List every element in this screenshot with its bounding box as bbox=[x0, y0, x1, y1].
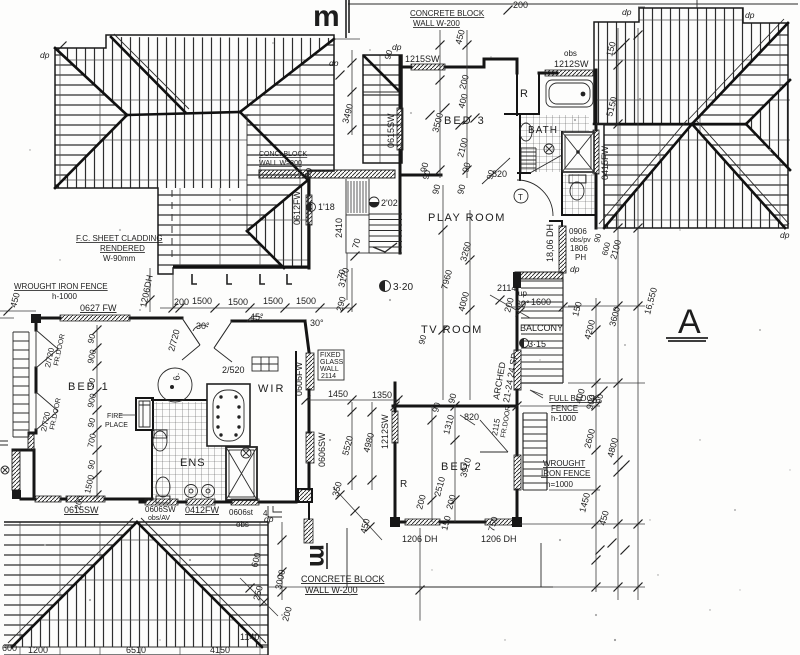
spot level circle 1'18 bbox=[307, 203, 316, 212]
dp labels bbox=[40, 7, 790, 524]
svg-text:RENDERED: RENDERED bbox=[100, 244, 145, 253]
roof mid porch: outline bbox=[363, 55, 402, 163]
svg-text:18,06 DH: 18,06 DH bbox=[545, 224, 555, 262]
ENS floor tiles bbox=[153, 402, 228, 500]
roof top-left: hip from NW corner bbox=[55, 48, 127, 115]
svg-text:2'02: 2'02 bbox=[381, 198, 398, 208]
svg-text:1350: 1350 bbox=[372, 390, 392, 400]
svg-text:dp: dp bbox=[622, 7, 632, 17]
section line top bbox=[346, 0, 349, 38]
roof top-left: hip from step corner (double) bbox=[111, 37, 185, 112]
svg-text:W-90mm: W-90mm bbox=[103, 254, 136, 263]
svg-text:0606SW: 0606SW bbox=[317, 432, 327, 467]
left fence lines bbox=[0, 311, 36, 318]
window 0615SW on BED3 west wall bbox=[397, 108, 403, 150]
svg-text:dp: dp bbox=[40, 50, 50, 60]
bath door swing bbox=[530, 155, 562, 173]
spa deck bbox=[207, 384, 250, 446]
roof top-left: ridge bbox=[127, 112, 240, 115]
balcony deck boards bbox=[521, 279, 563, 383]
roof top-right: north face vertical hatch bbox=[594, 8, 788, 124]
wall BED3 west bbox=[399, 56, 402, 253]
svg-text:1140: 1140 bbox=[240, 632, 259, 642]
svg-text:PH: PH bbox=[575, 253, 586, 262]
svg-text:m: m bbox=[304, 544, 334, 567]
roof mid porch: horizontal hatch bbox=[363, 55, 402, 163]
svg-text:dp: dp bbox=[570, 264, 580, 274]
BED3 dim 3500 bbox=[440, 30, 467, 178]
wall south main (ENS/WIR bottom) bbox=[140, 501, 296, 504]
spot symbol T bbox=[514, 189, 528, 203]
ENS toilet upper bbox=[153, 431, 167, 451]
wall BED3 north bbox=[401, 59, 517, 73]
roof top-left: hip from SW corner bbox=[55, 115, 127, 188]
svg-text:dp: dp bbox=[745, 10, 755, 20]
roof bottom-left: base horizontal hatch bbox=[4, 522, 268, 655]
roof top-left: west hip triangle horizontal hatch bbox=[55, 48, 127, 188]
window 0615SW BED1 south bbox=[35, 496, 61, 502]
courtyard stairs bbox=[369, 214, 402, 253]
wall TV east with balcony opening bbox=[516, 288, 519, 406]
window 1215SW on BED3 north wall bbox=[411, 64, 445, 70]
roof top-left: valley to courtyard bbox=[240, 112, 308, 180]
roof top-left: east face horizontal hatch bbox=[240, 38, 334, 180]
svg-text:30°: 30° bbox=[516, 299, 530, 309]
BED2 corner blocks bbox=[390, 517, 400, 527]
svg-text:6510: 6510 bbox=[126, 645, 146, 655]
svg-text:CONCRETE BLOCK: CONCRETE BLOCK bbox=[301, 574, 385, 584]
wall BED2 north bbox=[393, 405, 517, 408]
svg-text:1215SW: 1215SW bbox=[405, 54, 440, 64]
spot level circle 2'02 bbox=[369, 197, 379, 207]
right chain labels bbox=[340, 28, 659, 526]
roof top-right: outline bbox=[594, 8, 788, 228]
wall BED1 south bbox=[21, 498, 152, 501]
window 0612FW courtyard wall bbox=[306, 195, 312, 225]
wall ENS west (BED1 east) bbox=[151, 398, 153, 499]
roof mid porch: hip bbox=[364, 56, 400, 92]
middle dims 5520/4980 bbox=[306, 400, 400, 490]
svg-text:TV ROOM: TV ROOM bbox=[421, 324, 483, 336]
svg-text:0615SW: 0615SW bbox=[386, 113, 396, 148]
svg-text:1806: 1806 bbox=[570, 244, 588, 253]
wall x309 lower to section mark bbox=[308, 502, 310, 519]
wall playroom north (BED3 south) bbox=[400, 174, 441, 177]
svg-text:CONC. BLOCK: CONC. BLOCK bbox=[259, 151, 308, 158]
svg-text:dp: dp bbox=[264, 514, 274, 524]
wall BED1 west with french doors bbox=[13, 318, 36, 497]
BED2 dims bbox=[432, 406, 455, 522]
french door 2/720 upper bbox=[36, 330, 58, 368]
wall BED2 west bbox=[394, 383, 397, 524]
svg-text:820: 820 bbox=[464, 412, 479, 422]
svg-text:1500: 1500 bbox=[296, 296, 316, 306]
stair east of BED2 bbox=[523, 413, 547, 490]
svg-text:WROUGHT IRON FENCE: WROUGHT IRON FENCE bbox=[14, 282, 108, 291]
diagonal chain to terrace bbox=[333, 487, 382, 540]
svg-text:obs: obs bbox=[236, 520, 249, 529]
roof bottom-left: hip left (double) bbox=[12, 522, 137, 647]
roof mid porch: eave line bbox=[363, 91, 400, 93]
corner block south-east bbox=[298, 489, 312, 502]
TL roof right dim line bbox=[334, 39, 360, 135]
right dimension chain x618 bbox=[617, 28, 619, 600]
wall WIR north bbox=[232, 321, 309, 352]
window 0627FW BED1 north bbox=[60, 315, 130, 321]
roof bottom-left: centre gable vertical hatch bbox=[12, 522, 262, 647]
svg-text:dp: dp bbox=[392, 42, 402, 52]
courtyard north wall hatched (conc block) bbox=[259, 170, 395, 178]
svg-text:WROUGHT: WROUGHT bbox=[543, 459, 585, 468]
roof top-right: small gable hips bbox=[746, 80, 790, 124]
svg-text:F.C. SHEET CLADDING: F.C. SHEET CLADDING bbox=[76, 234, 163, 243]
svg-text:ENS: ENS bbox=[180, 457, 206, 469]
roof top-right: hip to SW corner (double ladder) bbox=[604, 124, 692, 228]
roof top-left: north band face vertical hatch bbox=[55, 35, 185, 115]
bathtub top bbox=[546, 80, 593, 107]
extension lines right bbox=[520, 7, 645, 587]
svg-text:BALCONY: BALCONY bbox=[520, 323, 563, 333]
svg-text:dp: dp bbox=[329, 58, 339, 68]
roof top-left: dashed gutter line bbox=[171, 190, 173, 262]
terrace outline below BED2 bbox=[347, 528, 553, 587]
courtyard west wall x309 upper bbox=[308, 178, 311, 268]
svg-text:0627 FW: 0627 FW bbox=[80, 303, 117, 313]
fence ladder left bbox=[13, 332, 29, 437]
fireplace bbox=[136, 398, 153, 430]
svg-text:BED 3: BED 3 bbox=[444, 115, 486, 127]
WIR east outer window bands bbox=[306, 353, 314, 390]
svg-text:1600: 1600 bbox=[531, 297, 551, 307]
roof bottom-left: eave line bbox=[4, 646, 268, 648]
svg-text:FIXED: FIXED bbox=[320, 352, 341, 359]
spot level 3.20 bbox=[380, 281, 391, 292]
roof top-right: east face horizontal hatch bbox=[692, 23, 788, 228]
roof top-right: south face vertical hatch bbox=[604, 124, 785, 228]
svg-text:0615SW: 0615SW bbox=[64, 505, 99, 515]
roof top-right: small east gable face vertical hatch bbox=[746, 80, 790, 170]
ENS toilet lower bbox=[156, 477, 170, 497]
svg-text:1212SW: 1212SW bbox=[554, 59, 589, 69]
svg-text:1500: 1500 bbox=[192, 296, 212, 306]
page top edge line bbox=[348, 0, 798, 8]
spa bath oval with jets bbox=[213, 390, 244, 441]
svg-text:1500: 1500 bbox=[263, 296, 283, 306]
wall BED3 east / robe divider bbox=[505, 67, 539, 115]
svg-text:WALL W-200: WALL W-200 bbox=[413, 19, 460, 28]
svg-text:R: R bbox=[520, 88, 528, 100]
svg-text:h-1000: h-1000 bbox=[551, 414, 576, 423]
wall bath north bbox=[539, 72, 557, 75]
svg-text:200: 200 bbox=[513, 0, 528, 10]
svg-text:2410: 2410 bbox=[334, 218, 344, 238]
svg-text:obs/pv: obs/pv bbox=[570, 237, 591, 244]
svg-text:1212SW: 1212SW bbox=[380, 414, 390, 449]
svg-text:h-1000: h-1000 bbox=[52, 292, 77, 301]
shower bath bbox=[562, 132, 594, 172]
WIR shelf icon bbox=[252, 357, 278, 371]
svg-text:FULL BLOCK: FULL BLOCK bbox=[549, 394, 598, 403]
svg-text:1206 DH: 1206 DH bbox=[402, 534, 438, 544]
svg-text:2114: 2114 bbox=[321, 373, 336, 380]
playroom dims bbox=[443, 185, 470, 400]
toilet WC top bbox=[569, 175, 586, 183]
ENS basins bbox=[185, 485, 198, 498]
svg-text:0906: 0906 bbox=[569, 227, 587, 236]
courtyard east boundary bbox=[346, 179, 369, 253]
wall BED1 north bbox=[36, 317, 182, 320]
deck dim ticks bbox=[169, 304, 178, 313]
svg-text:WALL: WALL bbox=[320, 366, 339, 373]
svg-text:up: up bbox=[518, 289, 527, 298]
svg-text:CONCRETE BLOCK: CONCRETE BLOCK bbox=[410, 9, 485, 18]
balcony west wall hatched bbox=[515, 272, 563, 279]
svg-text:A: A bbox=[678, 303, 701, 341]
wall playroom east bbox=[561, 221, 563, 226]
svg-text:0612FW: 0612FW bbox=[292, 190, 302, 225]
svg-text:0606st: 0606st bbox=[229, 508, 254, 517]
roof bottom-left: outline bbox=[4, 522, 268, 655]
linen stripes bbox=[521, 148, 536, 172]
right dimension chain x638 bbox=[637, 28, 639, 600]
1206DH top left label bbox=[149, 268, 151, 312]
wall BED2 east bbox=[516, 406, 519, 524]
bath vanity basin bbox=[520, 123, 532, 141]
roof top-left: hip from NE corner bbox=[240, 39, 334, 112]
svg-text:WALL W=300: WALL W=300 bbox=[259, 160, 302, 167]
svg-text:BED 1: BED 1 bbox=[68, 381, 110, 393]
svg-text:2/520: 2/520 bbox=[222, 365, 245, 375]
svg-text:PLACE: PLACE bbox=[105, 422, 128, 429]
svg-text:BATH: BATH bbox=[528, 125, 558, 136]
svg-text:0606SW: 0606SW bbox=[145, 505, 176, 514]
svg-text:GLASS: GLASS bbox=[320, 359, 344, 366]
svg-text:R: R bbox=[400, 479, 407, 490]
svg-text:1206 DH: 1206 DH bbox=[481, 534, 517, 544]
ENS shower bbox=[226, 447, 257, 500]
svg-text:IRON FENCE: IRON FENCE bbox=[541, 469, 590, 478]
roof top-left: outline bbox=[55, 35, 334, 274]
wall bath south / WC bbox=[518, 132, 596, 221]
svg-text:PLAY ROOM: PLAY ROOM bbox=[428, 212, 506, 224]
wall BED2 south with windows 1206DH bbox=[395, 521, 485, 524]
entry double doors bbox=[182, 318, 232, 348]
wall bath west bbox=[519, 115, 521, 180]
roof top-left: porch hip upper bbox=[247, 180, 308, 231]
svg-text:BED 2: BED 2 bbox=[441, 461, 483, 473]
deck columns L marks bbox=[192, 274, 292, 284]
roof top-right: ridge bbox=[594, 123, 746, 126]
svg-text:dp: dp bbox=[780, 230, 790, 240]
svg-text:1500: 1500 bbox=[228, 297, 248, 307]
BED1 interior dim chain bbox=[96, 325, 98, 499]
roof top-left: mid face vertical hatch bbox=[55, 112, 247, 188]
roof top-left: porch gable face vertical hatch bbox=[247, 180, 308, 268]
bath floor tiles bbox=[521, 115, 589, 172]
svg-text:WIR: WIR bbox=[258, 383, 285, 395]
bath symbol circle-x bbox=[544, 144, 554, 154]
svg-text:0606FW: 0606FW bbox=[294, 361, 304, 396]
svg-text:600: 600 bbox=[2, 643, 17, 653]
svg-text:1200: 1200 bbox=[28, 645, 48, 655]
deck dimension baseline bbox=[160, 268, 352, 312]
svg-text:0415FW: 0415FW bbox=[600, 145, 610, 180]
roof top-right: hip to NE corner (double) bbox=[692, 23, 788, 124]
roof bottom-left: hip right (double) bbox=[137, 522, 262, 647]
svg-text:1450: 1450 bbox=[328, 389, 348, 399]
roof top-left: thick eave line bottom bbox=[173, 266, 308, 269]
ticks right chains bbox=[592, 302, 601, 311]
bottom-left roof side dims bbox=[268, 522, 350, 600]
window 1212SW BED2 west bbox=[392, 411, 398, 443]
svg-text:3·15: 3·15 bbox=[528, 339, 546, 349]
roof top-left: top main face vertical hatch bbox=[111, 37, 334, 112]
bottom cut numbers bbox=[2, 632, 259, 655]
svg-text:obs: obs bbox=[564, 49, 577, 58]
balcony top dims bbox=[512, 306, 580, 308]
svg-text:4150: 4150 bbox=[210, 645, 230, 655]
svg-text:2114: 2114 bbox=[497, 283, 516, 293]
roof top-left: porch hip lower bbox=[247, 231, 284, 268]
step corner near 0606st bbox=[268, 506, 282, 517]
svg-text:m: m bbox=[313, 0, 340, 33]
svg-text:FIRE: FIRE bbox=[107, 413, 123, 420]
svg-text:h=1000: h=1000 bbox=[546, 480, 573, 489]
svg-text:FENCE: FENCE bbox=[551, 404, 578, 413]
svg-text:T: T bbox=[518, 193, 523, 202]
french door 2/720 lower bbox=[36, 392, 58, 430]
roof top-left: porch vertical edge bbox=[246, 115, 248, 231]
window 1212SW on bath north wall bbox=[545, 70, 593, 76]
window 0415FW on east wall bbox=[593, 130, 599, 174]
svg-text:WALL W-200: WALL W-200 bbox=[305, 585, 358, 595]
misc ticks near roofs bbox=[336, 71, 345, 80]
windows on south wall bbox=[145, 499, 178, 505]
roof top-right: west face horizontal hatch bbox=[604, 124, 692, 228]
fixed glass wall note bbox=[318, 350, 344, 380]
right dimension chain x596 bbox=[595, 298, 597, 592]
ENS symbol bbox=[241, 448, 251, 458]
ceiling fan circle BED1 bbox=[158, 368, 192, 402]
svg-text:30°: 30° bbox=[310, 318, 324, 328]
svg-text:obs/AV: obs/AV bbox=[148, 515, 170, 522]
wall WIR east inner bbox=[295, 352, 297, 502]
wall ENS north bbox=[152, 399, 207, 401]
wall east x596 bbox=[595, 70, 598, 228]
svg-text:3·20: 3·20 bbox=[393, 282, 413, 293]
90 scattered bbox=[302, 49, 605, 405]
svg-text:0412FW: 0412FW bbox=[185, 505, 220, 515]
roof top-right: hip to SE corner (double) bbox=[692, 124, 785, 228]
svg-text:1'18: 1'18 bbox=[318, 202, 335, 212]
door arc playroom-bath bbox=[517, 180, 553, 216]
svg-text:200: 200 bbox=[174, 297, 189, 307]
WC floor tiles bbox=[563, 174, 595, 214]
roof top-left: lower south face horizontal hatch bbox=[158, 188, 308, 274]
